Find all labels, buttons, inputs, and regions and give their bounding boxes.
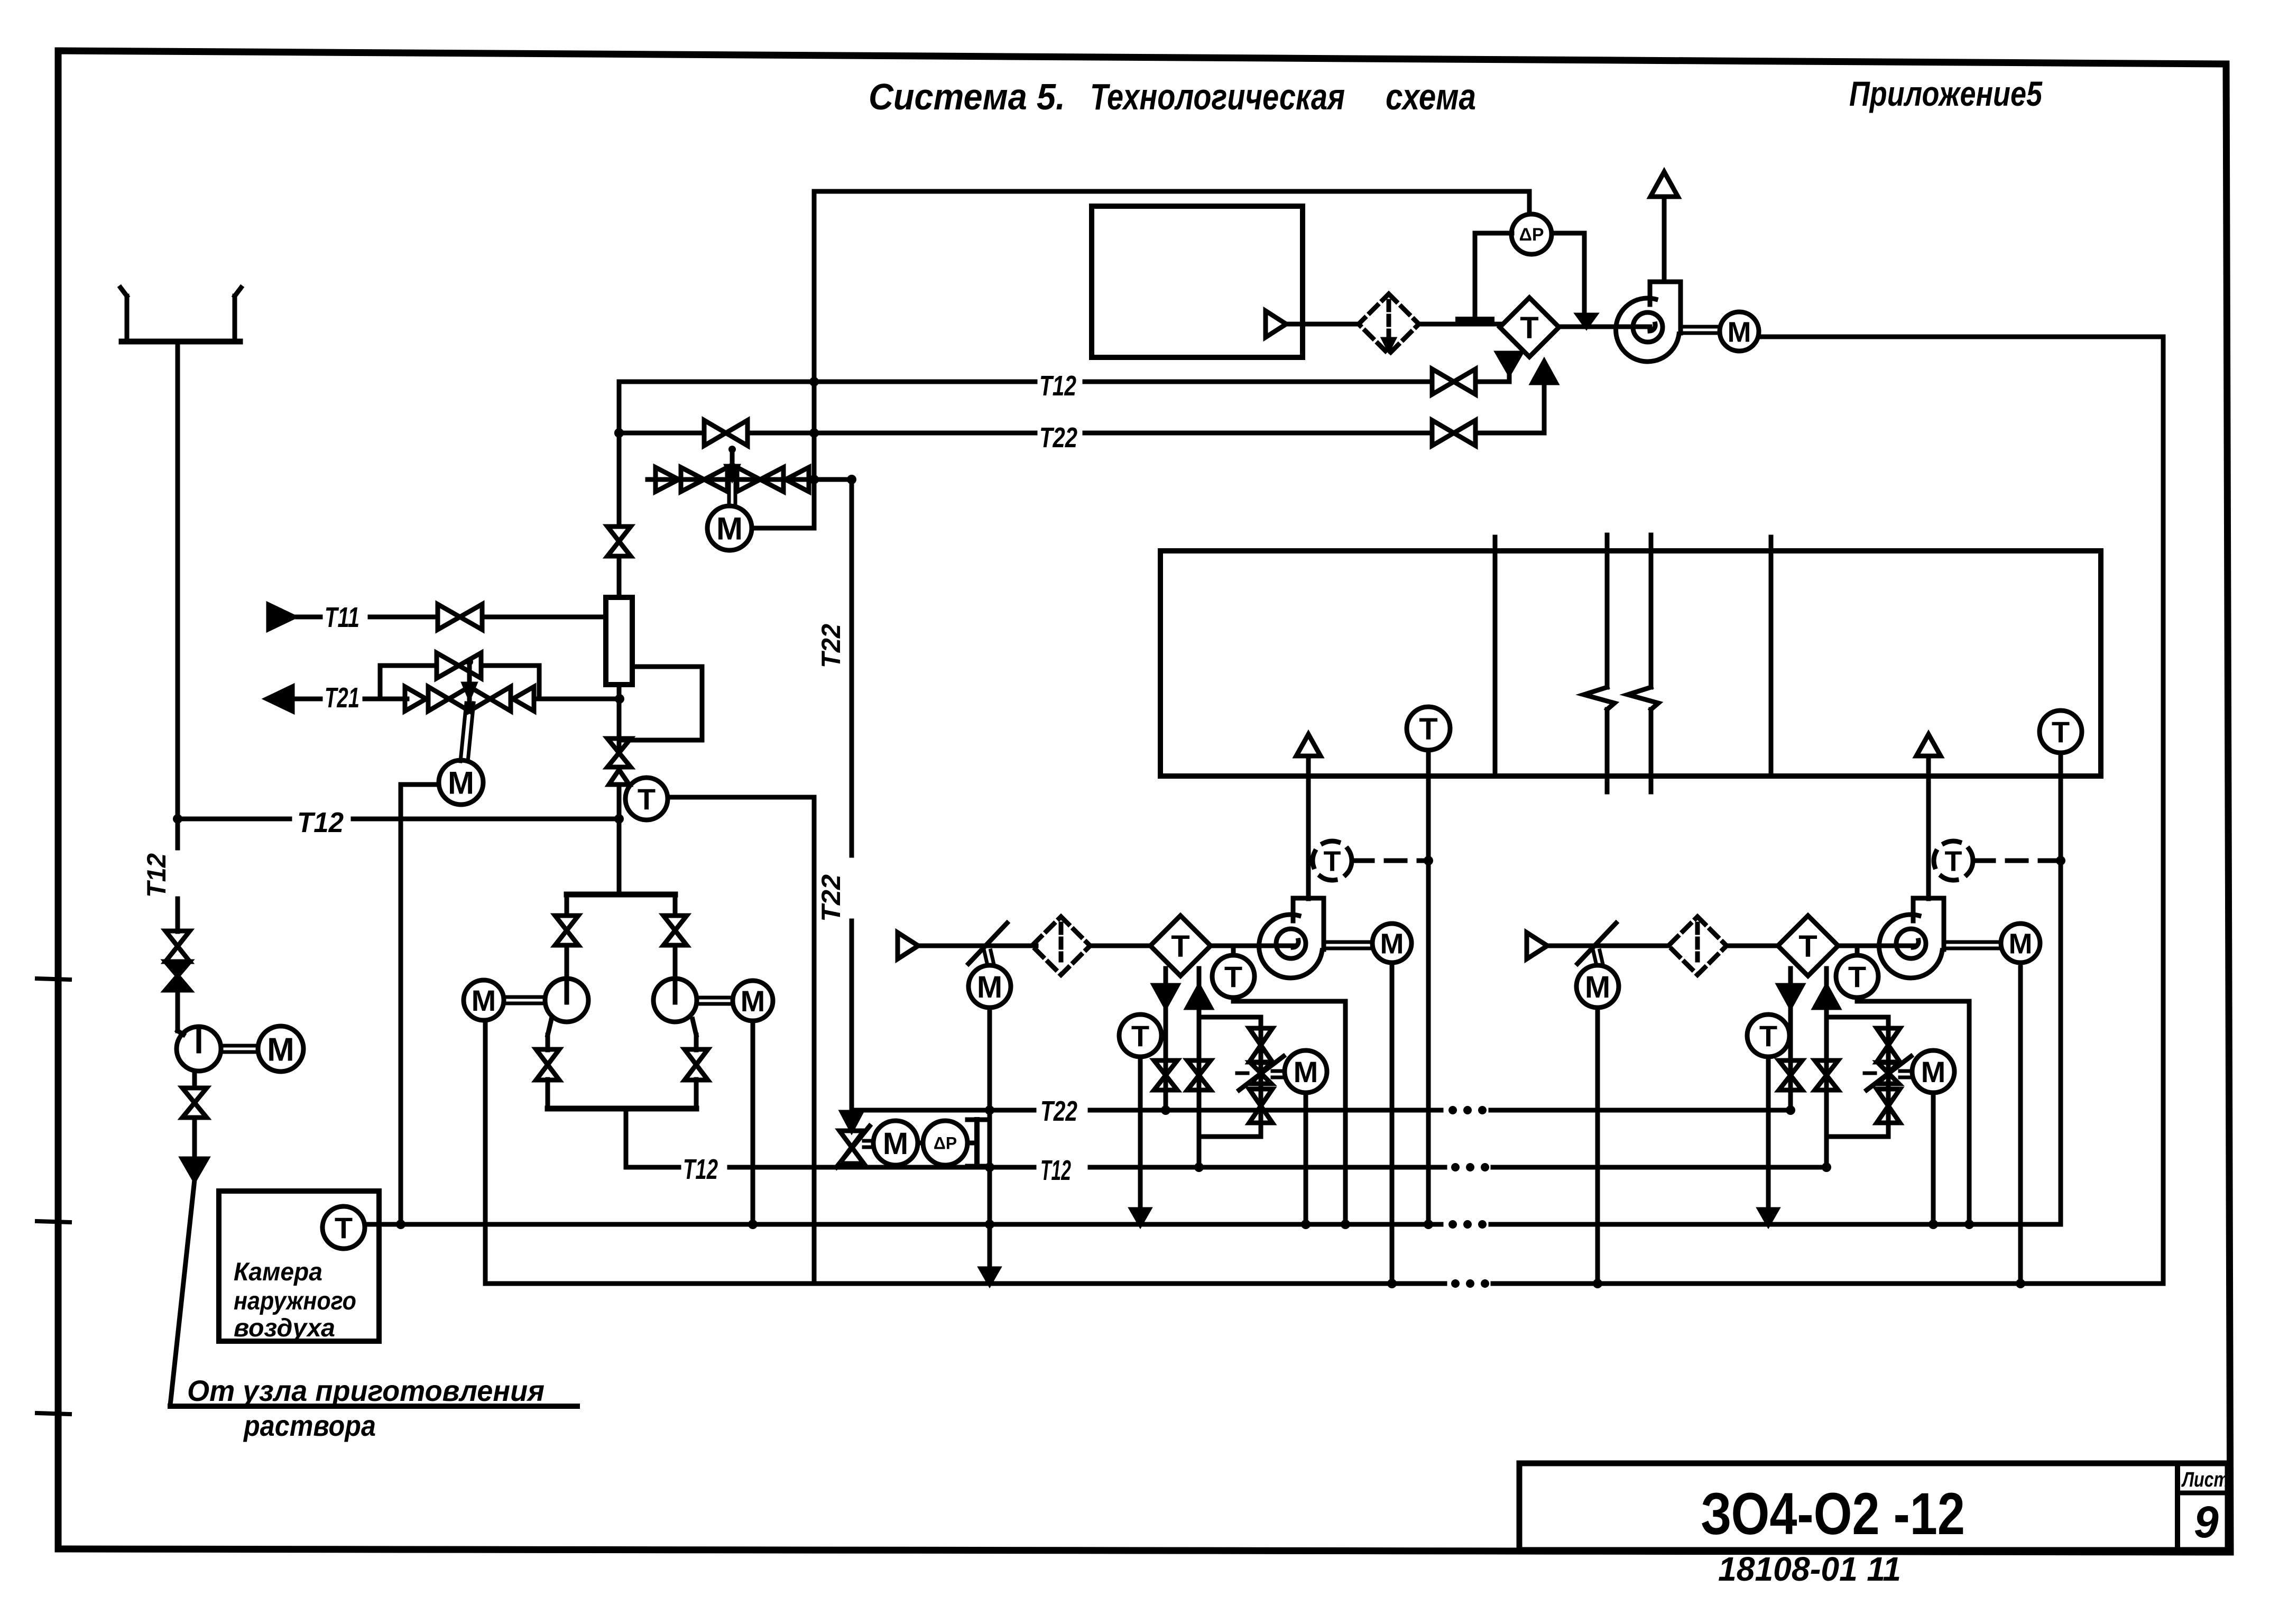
svg-text:T: T <box>1324 845 1341 877</box>
svg-text:T: T <box>1419 712 1437 746</box>
svg-text:M: M <box>472 984 496 1017</box>
svg-text:наружного: наружного <box>234 1287 356 1315</box>
svg-text:ЗО4-О2 -12: ЗО4-О2 -12 <box>1701 1481 1965 1547</box>
svg-text:Приложение5: Приложение5 <box>1849 74 2043 113</box>
svg-text:M: M <box>2009 928 2033 959</box>
svg-text:T: T <box>1759 1019 1777 1053</box>
svg-text:9: 9 <box>2194 1497 2219 1547</box>
svg-text:Лист: Лист <box>2181 1468 2229 1491</box>
svg-text:M: M <box>267 1031 294 1068</box>
svg-text:От узла приготовления: От узла приготовления <box>187 1374 545 1407</box>
svg-text:T: T <box>1945 845 1962 877</box>
svg-text:T: T <box>335 1211 353 1244</box>
svg-text:Т22: Т22 <box>816 874 846 922</box>
svg-text:M: M <box>1585 970 1610 1004</box>
svg-text:T: T <box>1798 929 1817 964</box>
svg-text:ΔP: ΔP <box>934 1134 957 1153</box>
svg-text:M: M <box>741 984 765 1018</box>
svg-text:M: M <box>883 1127 908 1161</box>
svg-text:M: M <box>448 765 474 801</box>
svg-text:Т11: Т11 <box>325 602 359 633</box>
svg-text:Т12: Т12 <box>1039 370 1076 402</box>
svg-text:Т21: Т21 <box>325 682 359 714</box>
svg-text:M: M <box>977 970 1002 1004</box>
svg-text:Технологическая: Технологическая <box>1090 76 1345 117</box>
svg-text:T: T <box>1131 1019 1149 1053</box>
svg-text:Т12: Т12 <box>1040 1155 1071 1186</box>
svg-text:воздуха: воздуха <box>234 1314 335 1342</box>
svg-text:T: T <box>2052 715 2070 749</box>
svg-text:ΔP: ΔP <box>1519 225 1544 245</box>
svg-text:T: T <box>1224 960 1242 993</box>
svg-text:Система 5.: Система 5. <box>869 76 1065 117</box>
svg-text:раствора: раствора <box>243 1409 376 1442</box>
svg-text:Т12: Т12 <box>683 1154 718 1185</box>
svg-text:18108-01 11: 18108-01 11 <box>1718 1550 1901 1588</box>
svg-text:M: M <box>1294 1055 1318 1088</box>
svg-text:M: M <box>1921 1055 1946 1088</box>
svg-text:T: T <box>638 782 656 816</box>
svg-text:Т12: Т12 <box>142 853 171 898</box>
svg-text:Т22: Т22 <box>1040 1095 1077 1127</box>
svg-text:M: M <box>1380 928 1404 959</box>
svg-text:M: M <box>716 511 743 547</box>
svg-text:схема: схема <box>1386 76 1476 117</box>
svg-text:M: M <box>1728 316 1751 348</box>
svg-text:T: T <box>1520 311 1538 345</box>
svg-text:Т12: Т12 <box>297 807 344 838</box>
svg-text:Камера: Камера <box>234 1258 322 1286</box>
svg-text:T: T <box>1848 960 1866 993</box>
svg-text:T: T <box>1171 929 1189 964</box>
svg-text:Т22: Т22 <box>1039 422 1077 454</box>
svg-text:Т22: Т22 <box>816 624 846 668</box>
